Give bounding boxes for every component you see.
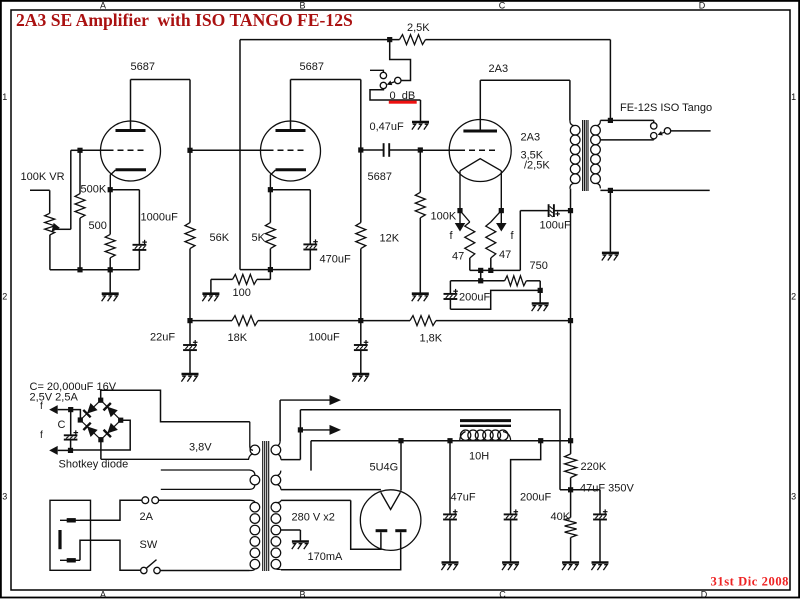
node bridge right [118,418,123,423]
svg-text:220K: 220K [581,461,607,473]
ground 47uF 350V [592,561,609,564]
svg-text:47uF: 47uF [451,491,476,503]
switch speaker lower throw [651,133,657,139]
ground 100uF decoupling [352,373,369,376]
svg-text:3,8V: 3,8V [189,441,212,453]
node 5U4G filament feed [398,438,403,443]
wire mains neutral [80,540,141,570]
node B+ rail join [568,318,573,323]
wire plate1 5U4G [351,500,381,549]
capacitor C 20000uF [64,410,78,451]
svg-text:C: C [499,590,506,600]
ground 40K [562,561,579,564]
transformer PT HV winding 280Vx2 [271,500,281,569]
wire 200uF psu feed [511,441,541,515]
svg-text:200uF: 200uF [520,491,551,503]
wire filament winding arrow1 [280,395,341,405]
transformer PT left unused winding [161,470,260,489]
node secondary ground [608,188,613,193]
svg-text:5687: 5687 [300,61,324,73]
svg-text:280 V x2: 280 V x2 [292,512,335,524]
node filament left [457,208,462,213]
diode bridge bottom-left [87,426,98,437]
wire coupling cap to grid [389,149,420,151]
ground 200uF psu [502,561,519,564]
plug blade bottom [60,559,80,561]
switch 0dB lower throw contact [380,82,386,88]
transformer OPT secondary winding [591,120,601,188]
resistor 100K grid leak [415,150,425,294]
svg-text:3: 3 [791,492,796,502]
wire speaker output top [671,130,711,132]
node bridge bottom [98,437,103,442]
switch SW contact right [154,567,160,573]
diode bridge top-right [107,407,118,418]
resistor 500K [75,150,85,269]
svg-text:22uF: 22uF [150,331,175,343]
svg-text:D: D [699,1,706,11]
wire feedback riser [240,40,400,270]
resistor 220K [565,441,577,490]
capacitor 0.47uF [384,143,390,157]
arrow filament right f [496,211,507,232]
wire grid V2 [190,149,268,151]
wire HV top to plate1 [281,499,351,501]
transformer OPT core [583,120,588,191]
wire plus to bridge left [71,410,81,420]
node bridge top [98,398,103,403]
arrow filament left f [455,211,466,232]
node 200uF top [478,278,483,283]
wire filament left feed [281,489,381,491]
resistor 1.8K [410,316,436,326]
wire B+ vertical [570,189,572,441]
switch 0dB pole contact [395,77,401,83]
svg-text:40K: 40K [551,511,571,523]
wire feedback to output [426,40,611,121]
node filament right [499,208,504,213]
wire filament right feed [400,441,402,491]
svg-text:FE-12S ISO Tango: FE-12S ISO Tango [620,102,712,114]
wire grid 2A3 entry [420,149,459,151]
svg-text:170mA: 170mA [308,551,344,563]
fuse 2A contact right [152,497,159,504]
plug blade middle [58,530,61,549]
svg-text:47: 47 [499,249,511,261]
wire mains live [80,500,142,520]
wire bias rail riser [300,410,560,490]
node plate V1 / grid V2 [187,148,192,153]
resistor 100 [211,270,271,294]
resistor 40K [565,490,577,563]
node bridge plus [68,407,73,412]
node hum rail left [478,268,483,273]
switch SW contact left [141,567,147,573]
node B+ rail 22uF [187,318,192,323]
svg-text:18K: 18K [228,332,248,344]
arrow f output bottom [49,446,70,455]
resistor 47 right [486,211,502,271]
wire switch pole feed [390,40,411,81]
capacitor 1000uF [133,240,147,270]
svg-text:750: 750 [530,260,548,272]
svg-text:2: 2 [2,292,7,302]
svg-text:500K: 500K [81,184,107,196]
wire plate V2 [291,80,361,151]
fuse 2A contact left [142,497,149,504]
transformer PT rectifier filament winding [271,441,281,460]
wire switch lower to ground [370,89,421,100]
ground 47uF psu [442,561,459,564]
wire B+ rail right [436,320,571,322]
svg-text:f: f [40,401,43,412]
svg-text:10H: 10H [469,451,489,463]
tube V4 5U4G [360,490,421,551]
node 500K bottom [77,267,82,272]
wire filament winding arrow2 [300,425,341,435]
svg-text:SW: SW [140,539,158,551]
svg-text:5687: 5687 [368,171,392,183]
ground V1 cathode [102,270,119,302]
svg-text:2,5K: 2,5K [407,22,430,34]
node cathode V1 [108,187,113,192]
wire secondary tap [600,139,653,140]
inductor choke 10H [460,421,511,441]
tube V1 5687 [101,121,161,190]
ground OPT secondary [602,190,619,260]
svg-text:C: C [499,1,506,11]
node bridge left [78,417,83,422]
capacitor 470uF [303,239,317,269]
switch speaker pole [664,128,670,134]
outlet plug box [50,500,91,570]
wire plate V1 [131,80,191,151]
capacitor 200uF bias [444,281,458,310]
svg-text:2A3 SE Amplifier with ISO TAN: 2A3 SE Amplifier with ISO TANGO FE-12S [16,10,353,30]
transformer PT second filament winding [271,471,281,490]
ground 100K [412,292,429,295]
wire filament winding riser2 [299,410,301,460]
resistor 2.5K [400,35,426,45]
wire hum rail [470,269,521,271]
wire cathode V1 to cap [110,190,139,245]
wire choke rail [311,440,571,442]
resistor 500 [105,190,115,270]
svg-text:500: 500 [89,220,107,232]
svg-text:470uF: 470uF [320,253,351,265]
wire cathode V2 to cap [270,190,310,245]
transformer PT core [263,441,269,571]
svg-text:5U4G: 5U4G [370,462,399,474]
wire secondary top [600,120,653,122]
wire fuse to primary [159,499,250,501]
wire cathode rail V1 [50,269,139,271]
node 47uF psu [447,438,452,443]
node grid 2A3 [418,147,423,152]
svg-text:f: f [40,430,43,441]
switch speaker lever arrow [658,131,665,135]
node bridge minus [68,448,73,453]
wire input [30,190,50,213]
resistor 56K [185,150,195,320]
arrow f output top [49,405,70,414]
wire minus to bridge right [71,420,131,450]
wire filament winding bottom lead [281,459,301,461]
capacitor 22uF [183,321,197,374]
svg-text:5K: 5K [252,232,266,244]
svg-text:2: 2 [791,292,796,302]
ground 100 resistor [202,292,219,295]
svg-text:12K: 12K [380,233,400,245]
wire to coupling cap [361,149,384,151]
wire grid V1 entry [80,149,108,151]
diode bridge bottom-right [107,423,118,434]
diode bridge top-left [87,403,98,414]
wire bridge AC top [101,390,250,422]
resistor 18K [232,316,258,326]
wire B+ rail mid [258,320,410,322]
ground 22uF [182,373,199,376]
wire wiper to grid [71,150,80,229]
svg-text:3: 3 [2,492,7,502]
svg-text:31st Dic 2008: 31st Dic 2008 [711,575,790,589]
svg-text:56K: 56K [210,232,230,244]
capacitor 200uF psu [504,509,518,562]
node filament winding tap [298,427,303,432]
svg-text:2A: 2A [140,511,154,523]
node grid V1 [77,148,82,153]
wire secondary bottom [600,189,709,191]
tube V3 2A3 [449,120,511,211]
switch 0dB lever arrow [387,81,395,86]
svg-text:47: 47 [452,251,464,263]
wire plate 2A3 [480,80,570,131]
node cathode V2 bottom [268,267,273,272]
svg-text:0 dB: 0 dB [390,90,416,102]
svg-text:D: D [701,590,708,600]
wire switch upper stub [370,70,383,72]
wire switch to primary [160,570,249,572]
capacitor 47uF psu [443,441,457,563]
wire bias rail [560,489,600,491]
transformer OPT primary winding [570,120,580,188]
svg-text:100K VR: 100K VR [21,171,65,183]
potentiometer 100K VR [45,213,71,269]
node bias divider [568,487,573,492]
tube V2 5687 [261,121,321,190]
svg-text:200uF: 200uF [459,292,490,304]
switch SW lever [146,560,156,569]
svg-text:100K: 100K [431,211,457,223]
red level underline [389,101,417,104]
resistor 47 left [460,211,475,271]
wire hum rail to 100uF [520,211,548,271]
node feedback takeoff [608,118,613,123]
switch 0dB upper throw contact [380,72,386,78]
wire HV centre tap [281,530,301,542]
node feedback switch tap [387,37,392,42]
wire 750 to ground node [526,281,540,291]
svg-text:5687: 5687 [131,61,155,73]
svg-text:B: B [299,590,305,600]
svg-text:1: 1 [791,92,796,102]
svg-text:47uF 350V: 47uF 350V [580,482,634,494]
wire 200uF return [450,290,540,309]
svg-text:1,8K: 1,8K [420,333,443,345]
svg-text:2,5V 2,5A: 2,5V 2,5A [30,392,79,404]
capacitor 47uF 350V [593,490,607,563]
wire filament winding riser1 [279,400,281,441]
plug blade top [60,519,80,521]
bridge rectifier arms [80,400,120,440]
resistor 12K [356,150,366,321]
svg-text:/2,5K: /2,5K [524,160,550,172]
wire plate2 5U4G [281,532,401,570]
transformer PT primary winding [250,500,260,570]
resistor 5K [265,190,275,270]
wire bridge AC bottom [100,440,102,460]
ground switch [412,100,429,130]
ground 750 [532,290,549,311]
transformer PT left filament winding 3.8V [101,422,260,460]
node 200uF psu [538,438,543,443]
node 750 ground [538,288,543,293]
wire B+ rail left [190,320,232,322]
svg-text:1000uF: 1000uF [141,211,179,223]
svg-text:2A3: 2A3 [521,131,541,143]
svg-text:C: C [58,419,66,431]
svg-text:100uF: 100uF [540,220,571,232]
svg-text:2A3: 2A3 [489,63,509,75]
ground HV centre tap [292,540,309,543]
svg-text:1: 1 [2,92,7,102]
node 100uF to B+ [568,208,573,213]
svg-text:0,47uF: 0,47uF [370,121,405,133]
capacitor 100uF cathode [549,204,571,217]
node B+ rail 100uF [358,318,363,323]
svg-text:A: A [100,590,106,600]
svg-text:Shotkey diode: Shotkey diode [59,458,129,470]
switch speaker upper throw [651,123,657,129]
node cathode V2 [268,187,273,192]
svg-text:100: 100 [233,287,251,299]
node cathode V1 bottom [108,267,113,272]
node hum rail right [488,268,493,273]
resistor 750 [505,276,527,286]
node coupling cap left [358,147,363,152]
wire rectifier filament riser [310,441,312,471]
wire cathode rail V2 [240,269,310,271]
node B+ to OPT [568,438,573,443]
capacitor 100uF decoupling [354,321,368,374]
svg-text:100uF: 100uF [309,332,340,344]
wire hum to 750 rail [450,270,504,280]
